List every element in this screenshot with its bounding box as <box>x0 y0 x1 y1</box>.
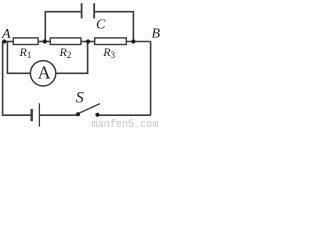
resistor R3 box <box>95 38 127 45</box>
battery BT1 long thin plate <box>38 103 40 126</box>
svg-text:A: A <box>1 27 11 42</box>
wire R1 to R2 <box>38 41 50 43</box>
svg-text:R3: R3 <box>102 45 115 60</box>
svg-text:C: C <box>96 18 106 33</box>
svg-text:R1: R1 <box>19 45 32 60</box>
switch S right contact dot <box>95 113 99 117</box>
wire left side down from A <box>3 42 31 116</box>
svg-text:R2: R2 <box>59 45 72 60</box>
svg-text:A: A <box>38 63 51 83</box>
svg-text:manfen5.com: manfen5.com <box>92 119 159 129</box>
wire battery to switch <box>39 114 76 116</box>
junction dot between R3 and B <box>131 39 135 43</box>
node A junction dot <box>2 39 6 43</box>
resistor R1 box <box>13 38 38 45</box>
svg-text:S: S <box>76 90 84 107</box>
battery BT1 short thick plate <box>31 109 33 121</box>
wire ammeter branch left <box>7 42 30 74</box>
resistor R2 box <box>50 38 81 45</box>
wire ammeter branch right <box>56 42 88 74</box>
svg-text:B: B <box>152 27 161 42</box>
wire top rail right (capacitor to node between R3 and B) <box>95 12 134 42</box>
capacitor C right plate <box>93 3 95 18</box>
wire top rail left (node between R1,R2 up to capacitor) <box>45 12 81 42</box>
junction dot between R2 and R3 <box>86 39 90 43</box>
wire right side down <box>150 42 152 116</box>
junction dot between R1 and R2 <box>43 39 47 43</box>
switch S lever <box>78 104 100 114</box>
wire R2 to R3 <box>81 41 95 43</box>
ammeter U1 circle <box>30 61 55 86</box>
capacitor C left plate <box>81 3 83 18</box>
switch S left contact dot <box>76 112 80 116</box>
wire main rail A to R1 <box>4 41 13 43</box>
wire switch to right corner <box>97 114 150 116</box>
wire R3 to right corner <box>126 41 150 43</box>
